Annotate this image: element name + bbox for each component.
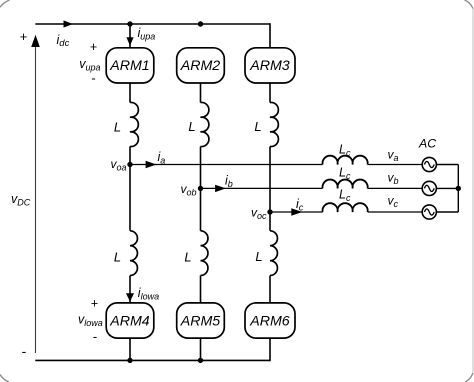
svg-text:ARM6: ARM6	[249, 313, 290, 329]
wire: phase b line (v_ob to coil)	[201, 187, 323, 189]
svg-text:+: +	[90, 40, 97, 54]
node v_oc	[267, 209, 272, 214]
wire: lower inductor c to ARM6	[269, 276, 271, 303]
wire: ARM5 to bottom bus	[200, 338, 202, 360]
inductor L_c (phase c)	[323, 203, 368, 212]
wire: ARM1 to upper inductor a	[129, 83, 131, 103]
wire: ARM3 to upper inductor c	[269, 83, 271, 103]
wire: top bus corner to ARM3	[269, 23, 271, 48]
wire: phase b coil to source	[368, 187, 423, 189]
inductor L (lower arm a)	[130, 231, 137, 276]
wire: upper inductor a to node v_oa	[129, 147, 131, 165]
wire: phase a coil to source	[368, 164, 423, 166]
svg-text:ARM5: ARM5	[180, 313, 221, 329]
inductor L_c (phase a)	[323, 156, 368, 165]
wire: phase c coil to source	[368, 211, 423, 213]
svg-text:-: -	[93, 329, 97, 344]
node: top bus / arm b junction	[198, 21, 203, 26]
inductor L_c (phase b)	[323, 180, 368, 189]
wire: phase c line (v_oc to coil)	[270, 211, 323, 213]
node: top bus / arm a junction	[127, 21, 132, 26]
wire: lower inductor b to ARM5	[200, 276, 202, 303]
inductor L (upper arm a)	[130, 102, 138, 146]
svg-text:ARM2: ARM2	[180, 58, 221, 74]
current arrow i_dc	[64, 20, 73, 27]
wire: right neutral bus	[457, 165, 459, 213]
op ARM4 block	[106, 303, 154, 338]
inductor L (lower arm b)	[201, 231, 208, 276]
svg-text:L: L	[188, 119, 195, 134]
wire: phase a line (v_oa to coil)	[130, 164, 323, 166]
svg-text:ARM3: ARM3	[249, 58, 290, 74]
wire: upper inductor c to node v_oc	[269, 147, 271, 213]
ac source V_b	[422, 181, 436, 195]
svg-text:-: -	[22, 343, 27, 359]
wire: source b to right bus	[436, 187, 458, 189]
wire: upper inductor b to node v_ob	[200, 147, 202, 189]
svg-text:ARM1: ARM1	[109, 58, 149, 74]
current arrow i_lowa	[126, 293, 134, 302]
wire: ARM6 to bottom bus corner	[269, 338, 271, 361]
wire: v_oa down to lower inductor a	[129, 165, 131, 231]
node v_oa	[127, 162, 132, 167]
svg-text:L: L	[114, 250, 121, 265]
svg-text:+: +	[91, 297, 98, 311]
wire: top DC bus	[35, 23, 270, 25]
ac source V_a	[422, 157, 436, 171]
svg-text:L: L	[255, 249, 262, 264]
ac source V_c	[422, 205, 436, 219]
wire: source c to right bus	[436, 211, 458, 213]
wire: ARM2 to upper inductor b	[200, 83, 202, 103]
inductor L (lower arm c)	[270, 231, 277, 276]
op ARM5 block	[177, 303, 225, 338]
op ARM1 block	[106, 48, 154, 83]
svg-text:L: L	[254, 119, 261, 134]
svg-text:L: L	[184, 250, 191, 265]
inductor L (upper arm b)	[201, 102, 209, 146]
svg-text:-: -	[91, 71, 95, 86]
node: neutral junction	[456, 186, 461, 191]
op ARM6 block	[245, 303, 295, 338]
current arrow i_a	[146, 161, 157, 168]
svg-text:+: +	[20, 29, 28, 44]
op ARM3 block	[245, 48, 295, 83]
op ARM2 block	[177, 48, 225, 83]
node v_ob	[198, 186, 203, 191]
voltage arrow v_DC	[35, 46, 37, 354]
svg-text:ARM4: ARM4	[109, 313, 150, 329]
current arrow i_upa	[126, 37, 133, 45]
inductor L (upper arm c)	[270, 102, 278, 146]
wire: lower inductor a to ARM4	[129, 276, 131, 303]
node: bottom bus / arm b junction	[198, 358, 203, 363]
wire: top bus down to ARM1	[129, 24, 131, 48]
svg-text:AC: AC	[418, 136, 436, 150]
wire: source a to right bus	[436, 164, 458, 166]
wire: ARM4 to bottom bus	[129, 338, 131, 360]
svg-text:L: L	[114, 120, 121, 135]
current arrow i_b	[215, 185, 226, 192]
wire: bottom DC bus	[35, 359, 270, 361]
node: bottom bus / arm a junction	[127, 358, 132, 363]
current arrow i_c	[291, 208, 302, 215]
wire: v_oc down to lower inductor c	[269, 212, 271, 231]
wire: v_ob down to lower inductor b	[200, 188, 202, 230]
